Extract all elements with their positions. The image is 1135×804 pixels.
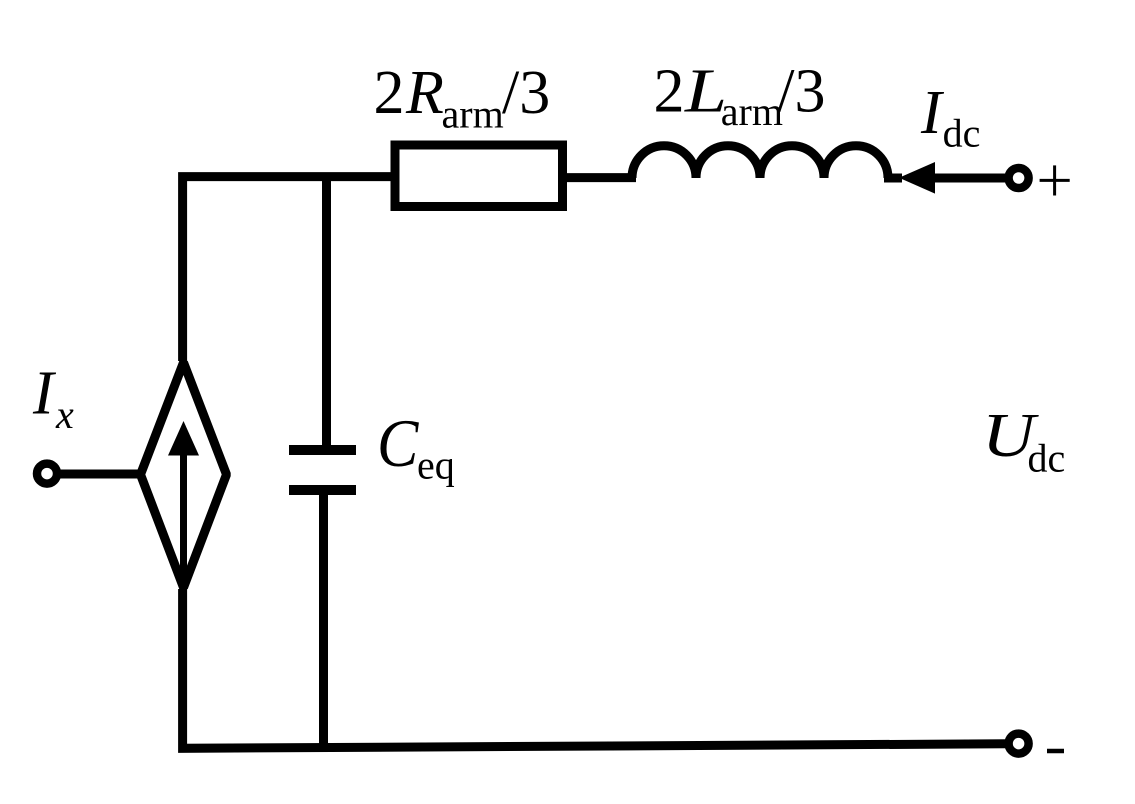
svg-text:dc: dc	[1028, 436, 1066, 481]
svg-text:2: 2	[374, 59, 405, 127]
svg-text:2: 2	[654, 58, 685, 126]
svg-text:arm: arm	[442, 92, 504, 137]
svg-text:/3: /3	[777, 58, 825, 126]
svg-text:arm: arm	[721, 89, 783, 134]
svg-text:dc: dc	[943, 111, 981, 156]
svg-text:I: I	[32, 360, 57, 428]
svg-text:eq: eq	[417, 443, 455, 488]
svg-text:I: I	[920, 79, 945, 147]
svg-text:x: x	[55, 392, 74, 437]
svg-text:/3: /3	[502, 59, 550, 127]
svg-text:C: C	[377, 406, 420, 481]
svg-text:R: R	[405, 59, 444, 127]
